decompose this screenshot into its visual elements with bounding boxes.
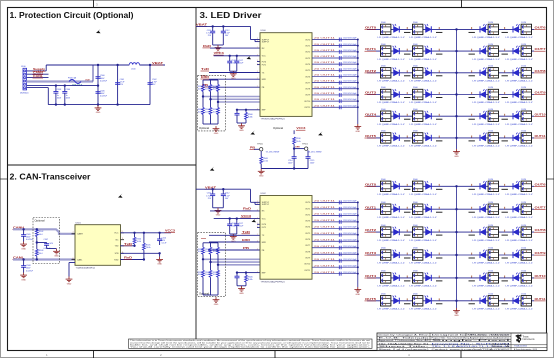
svg-text:OUT10: OUT10: [304, 264, 310, 266]
svg-text:1: 1: [257, 40, 258, 42]
svg-text:0.1uF: 0.1uF: [238, 63, 244, 65]
ground output bus: [354, 124, 361, 129]
svg-text:OUT1: OUT1: [305, 208, 310, 210]
test point TP500: [260, 148, 263, 151]
svg-text:10.0k: 10.0k: [296, 141, 301, 143]
wire LED row net OUT1: [367, 208, 457, 210]
svg-text:OUT4: OUT4: [365, 112, 377, 116]
wire LED common bus: [456, 186, 458, 308]
annotation arrow: [250, 130, 255, 134]
wire output row 1 with capacitor: [312, 207, 359, 211]
svg-text:RxD: RxD: [124, 257, 132, 260]
svg-text:OUT10: OUT10: [535, 112, 547, 116]
wire output row 9 with capacitor: [312, 93, 359, 97]
LED D500: [378, 22, 411, 39]
wire LED row net OUT4: [367, 115, 457, 117]
resistor R525 pulldown: [217, 265, 219, 271]
wire VBAT: [196, 25, 251, 27]
svg-text:OUT1: OUT1: [365, 47, 377, 51]
wire bottom rail: [48, 104, 150, 106]
svg-text:10.0k: 10.0k: [205, 88, 209, 90]
svg-text:TxD: TxD: [201, 68, 209, 71]
wire STB to gnd: [159, 253, 161, 256]
svg-text:Project Title: Two-Channel Ma: Project Title: Two-Channel Many Angled O…: [432, 337, 511, 340]
capacitor C506: [96, 92, 101, 94]
svg-text:F500 3A: F500 3A: [68, 76, 76, 79]
wire LED row net OUT4: [367, 277, 457, 279]
fuse F500: [69, 80, 81, 84]
svg-text:TxD: TxD: [242, 231, 250, 234]
LED D509: [410, 66, 443, 83]
wire LED row net OUT1: [367, 50, 457, 52]
svg-text:1: 1: [257, 203, 258, 205]
LED D532: [378, 225, 411, 242]
wire ADDR1 (highlighted): [211, 261, 261, 263]
svg-text:1: 1: [257, 63, 258, 65]
svg-text:10.0k: 10.0k: [213, 251, 217, 253]
wire VCC3: [214, 55, 260, 57]
svg-text:VBAT: VBAT: [205, 185, 217, 189]
wire SUPPLY pin: [251, 201, 261, 203]
wire ADDR0 (highlighted): [203, 96, 260, 98]
wire LED row net OUT2: [367, 72, 457, 74]
svg-text:TID: TIDA-050030 Rev: E1: TID: TIDA-050030 Rev: E1: [379, 342, 431, 345]
svg-text:RXD: RXD: [114, 259, 119, 261]
svg-text:GND: GND: [259, 176, 264, 178]
svg-text:Rev: 2 3 4: Rev: 2 3 4: [492, 343, 512, 345]
capacitor C503: [53, 92, 58, 94]
svg-text:CANH: CANH: [77, 233, 83, 236]
LED D542: [469, 271, 501, 288]
wire output gnd bus: [357, 202, 359, 287]
ground under C505: [20, 242, 27, 247]
wire PB to TP500: [254, 148, 259, 150]
svg-text:OUT11: OUT11: [304, 107, 310, 109]
svg-text:OUT5: OUT5: [305, 233, 310, 235]
junction: [293, 167, 295, 169]
LED D525: [410, 179, 443, 196]
svg-text:OUT3: OUT3: [365, 91, 377, 95]
svg-text:OUT6: OUT6: [535, 26, 547, 30]
svg-text:VCC3: VCC3: [214, 52, 225, 55]
svg-text:GND: GND: [216, 215, 221, 217]
wire VBAT rail right: [140, 64, 166, 66]
optional termination box: [33, 218, 60, 264]
svg-text:FLT1: FLT1: [262, 227, 266, 229]
wire riser fuse output: [92, 65, 94, 82]
wire pin4 supply (highlighted): [27, 80, 93, 82]
wire PB: [208, 249, 260, 251]
svg-text:OUT1: OUT1: [365, 205, 377, 209]
svg-text:E-O-B: Tolerado: E-O-B: Tolerado: [379, 338, 432, 340]
LED D510: [469, 66, 501, 83]
svg-text:1: 1: [257, 241, 258, 243]
svg-text:VCC3: VCC3: [165, 230, 176, 233]
wire output row 0 with capacitor: [312, 200, 359, 204]
disclaimer text box: [129, 339, 373, 348]
svg-text:0.1uF: 0.1uF: [162, 243, 168, 245]
svg-text:VCC: VCC: [114, 233, 119, 235]
junction LED bus: [455, 28, 457, 30]
svg-text:OUT8: OUT8: [305, 251, 310, 253]
LED D536: [378, 248, 411, 265]
capacitor C508: [21, 266, 26, 268]
svg-text:OUT11: OUT11: [535, 134, 547, 138]
svg-text:TCAN1044AVDRQ1: TCAN1044AVDRQ1: [76, 267, 96, 270]
annotation arrow: [96, 29, 101, 33]
svg-text:OUT9: OUT9: [305, 95, 310, 97]
svg-text:GND: GND: [214, 304, 219, 306]
svg-text:VCC: VCC: [262, 218, 267, 220]
wire to C517: [236, 219, 238, 224]
wire output row 8 with capacitor: [312, 87, 359, 91]
svg-text:A Texas Instruments - 2019: A Texas Instruments - 2019: [514, 348, 537, 351]
wire to C508: [23, 260, 25, 266]
svg-text:10.0k: 10.0k: [213, 88, 217, 90]
svg-text:0.047uF: 0.047uF: [100, 96, 108, 98]
svg-text:1: 1: [257, 226, 258, 228]
wire output row 3 with capacitor: [312, 56, 359, 60]
svg-text:RX_DIG_TMSW: RX_DIG_TMSW: [308, 152, 322, 154]
svg-text:C503: C503: [57, 89, 62, 91]
svg-text:Approved: TI Information Siz: Approved: TI Information Size: A3: [379, 339, 430, 342]
svg-text:VCC: VCC: [262, 56, 267, 58]
ground VBAT caps: [215, 45, 222, 50]
wire LED row net OUT5: [367, 300, 457, 302]
LED D544: [378, 294, 411, 311]
wire to C512: [222, 189, 224, 194]
LED D521: [410, 131, 443, 148]
ground REF: [238, 123, 245, 128]
capacitor C504: [62, 92, 67, 94]
svg-text:100V: 100V: [310, 163, 315, 165]
svg-text:TxD: TxD: [124, 243, 132, 246]
LED D503: [502, 22, 534, 39]
annotation arrow: [318, 131, 323, 135]
svg-text:OUT8: OUT8: [535, 228, 547, 232]
svg-text:VBAT: VBAT: [196, 23, 208, 27]
svg-text:GND: GND: [21, 248, 26, 250]
wire output row 2 with capacitor: [312, 213, 359, 217]
resistor R525 pulldown: [217, 102, 219, 108]
optional address-select box: [198, 75, 226, 131]
LED D524: [378, 179, 411, 196]
svg-text:282834-6: 282834-6: [20, 93, 29, 95]
junction split node: [36, 241, 38, 243]
wire RxD: [210, 47, 260, 49]
svg-text:60.4: 60.4: [39, 253, 43, 255]
LED D530: [469, 202, 501, 219]
wire to C512: [222, 26, 224, 31]
svg-text:RxD: RxD: [243, 208, 251, 211]
svg-text:SUPPLY: SUPPLY: [262, 41, 270, 43]
svg-text:OUT4: OUT4: [305, 64, 310, 66]
svg-text:GND: GND: [157, 264, 162, 266]
LED D523: [502, 131, 534, 148]
svg-text:OUT5: OUT5: [365, 297, 377, 301]
wire pin3 CANL stub: [27, 77, 49, 79]
svg-text:TP501: TP501: [302, 143, 309, 145]
svg-text:GND: GND: [239, 293, 244, 295]
ground split termination: [53, 249, 60, 254]
LED D547: [502, 294, 534, 311]
svg-text:GND: GND: [355, 294, 360, 296]
resistor R522 pullup: [217, 80, 219, 85]
wire ERR: [209, 241, 260, 243]
LED D507: [502, 44, 534, 61]
capacitor C513: [236, 273, 238, 277]
LED D546: [469, 294, 501, 311]
resistor R510: [293, 137, 296, 144]
junction LED bus: [455, 50, 457, 52]
svg-text:STB: STB: [115, 253, 120, 255]
svg-text:ERR: ERR: [262, 242, 267, 244]
wire cap gnd tie: [213, 44, 224, 46]
wire to C516: [229, 219, 231, 224]
wire to C503: [55, 86, 57, 92]
wire output row 8 with capacitor: [312, 252, 359, 256]
LED D538: [469, 248, 501, 265]
wire: [36, 228, 38, 230]
LED D518: [469, 109, 501, 126]
LED D520: [378, 131, 411, 148]
ground U501: [66, 277, 73, 282]
svg-text:TIDA-010052: TIDA-010052: [514, 345, 528, 348]
svg-text:Size: A: Size: A: [492, 345, 512, 348]
svg-text:1. Protection Circuit (Optiona: 1. Protection Circuit (Optional): [10, 10, 134, 20]
svg-text:SUPPLY: SUPPLY: [262, 204, 270, 206]
svg-text:OUT3: OUT3: [365, 251, 377, 255]
resistor R523 pulldown: [202, 259, 204, 270]
svg-text:1: 1: [257, 234, 258, 236]
svg-text:Single-Pixel: Single-Pixel: [432, 340, 514, 342]
LED D527: [502, 179, 534, 196]
wire ADDR2 (highlighted): [218, 264, 260, 266]
wire LED row net OUT3: [367, 254, 457, 256]
svg-text:10.0k: 10.0k: [205, 111, 209, 113]
wire to TP501: [294, 148, 304, 150]
resistor R520 pullup: [202, 80, 204, 85]
svg-text:10.0k: 10.0k: [205, 274, 209, 276]
ground VBAT caps: [215, 208, 222, 213]
CAN transceiver U501: [75, 225, 121, 266]
wire output row 10 with capacitor: [312, 265, 359, 269]
svg-text:1: 1: [257, 249, 258, 251]
wire box bottom rail: [203, 123, 218, 125]
optional address-select box: [198, 233, 226, 297]
svg-text:U502: U502: [261, 193, 267, 195]
ground REF: [238, 286, 245, 291]
wire C502 column: [149, 65, 151, 105]
junction LED bus: [455, 185, 457, 187]
svg-text:OUT8: OUT8: [535, 69, 547, 73]
svg-text:ERR: ERR: [201, 76, 209, 79]
wire TP501 to C515: [307, 150, 309, 156]
LED D501: [410, 22, 443, 39]
svg-text:U501: U501: [76, 222, 82, 224]
svg-text:GND: GND: [214, 133, 219, 135]
svg-text:10.0k: 10.0k: [198, 111, 202, 113]
svg-text:OUT6: OUT6: [535, 182, 547, 186]
wire stub FLT0: [257, 223, 260, 225]
resistor R524 pulldown: [210, 262, 212, 270]
svg-text:10.0k: 10.0k: [198, 88, 202, 90]
LED D545: [410, 294, 443, 311]
svg-text:1: 1: [257, 217, 258, 219]
wire ERR: [209, 78, 260, 80]
annotation arrow: [252, 218, 257, 222]
LED D519: [502, 109, 534, 126]
svg-text:VBAT: VBAT: [85, 78, 91, 81]
wire TxD: [209, 234, 260, 236]
capacitor C507: [44, 244, 49, 246]
wire TxD: [209, 72, 260, 74]
LED D511: [502, 66, 534, 83]
wire stub FLT1: [257, 64, 260, 66]
svg-text:8.06k: 8.06k: [248, 116, 253, 118]
svg-text:OUT3: OUT3: [305, 58, 310, 60]
svg-text:Sheet: 2 of 4 (schematic): Sheet: 2 of 4 (schematic): [379, 348, 430, 351]
svg-text:OUT2: OUT2: [365, 69, 377, 73]
svg-text:C504: C504: [66, 89, 71, 91]
wire pin1 Supply: [27, 70, 47, 72]
wire to C517: [236, 56, 238, 61]
wire output gnd bus: [357, 40, 359, 125]
LED D512: [378, 87, 411, 104]
wire output row 4 with capacitor: [312, 226, 359, 230]
wire output row 0 with capacitor: [312, 38, 359, 42]
svg-text:OUT7: OUT7: [535, 47, 547, 51]
wire riser to VBAT rail: [45, 65, 47, 71]
wire RxD: [210, 210, 260, 212]
svg-text:VBAT: VBAT: [152, 61, 164, 65]
LED D517: [410, 109, 443, 126]
svg-text:OUT0: OUT0: [305, 202, 310, 204]
wire REF: [246, 272, 260, 274]
LED D537: [410, 248, 443, 265]
svg-text:Texas: Texas: [523, 337, 530, 339]
wire output row 3 with capacitor: [312, 220, 359, 224]
svg-text:OUT1: OUT1: [305, 45, 310, 47]
wire output row 6 with capacitor: [312, 74, 359, 78]
svg-text:OUT5: OUT5: [305, 70, 310, 72]
svg-text:CANL: CANL: [77, 258, 83, 261]
svg-text:OUT2: OUT2: [305, 214, 310, 216]
svg-text:8.06k: 8.06k: [248, 279, 253, 281]
capacitor C510: [159, 233, 161, 239]
svg-text:10.0k: 10.0k: [146, 247, 151, 249]
svg-text:OUT4: OUT4: [305, 227, 310, 229]
ground VCC3 caps: [230, 234, 237, 239]
LED D508: [378, 66, 411, 83]
junction LED bus: [455, 300, 457, 302]
junction LED bus: [455, 208, 457, 210]
resistor R504: [134, 233, 136, 237]
ground address box: [213, 126, 220, 131]
svg-text:100V: 100V: [66, 98, 71, 100]
svg-text:C507: C507: [44, 239, 49, 241]
LED D531: [502, 202, 534, 219]
svg-text:GND: GND: [21, 279, 26, 281]
wire riser to SUPPLY: [250, 189, 252, 202]
svg-text:ERR: ERR: [262, 79, 267, 81]
title block: [377, 333, 547, 351]
wire riser pin6 to bottom rail: [47, 88, 49, 105]
svg-text:OUT3: OUT3: [305, 221, 310, 223]
resistor R506 REF: [245, 110, 247, 113]
wire output row 7 with capacitor: [312, 81, 359, 85]
svg-text:CANL: CANL: [33, 75, 44, 78]
svg-text:10.0k: 10.0k: [198, 274, 202, 276]
LED D515: [502, 87, 534, 104]
svg-text:1: 1: [257, 271, 258, 273]
resistor R503: [35, 249, 38, 256]
wire to CANL: [36, 256, 38, 259]
svg-text:OUT10: OUT10: [535, 274, 547, 278]
wire ADDR0 (highlighted): [203, 258, 260, 260]
wire cap gnd tie: [230, 70, 237, 72]
svg-text:0.1uF: 0.1uF: [238, 225, 244, 227]
svg-text:Contact: www.ti.com/tool/TIDA: Contact: www.ti.com/tool/TIDA-010052: [432, 348, 512, 351]
svg-text:1: 1: [257, 47, 258, 49]
svg-text:2. CAN-Transceiver: 2. CAN-Transceiver: [10, 172, 92, 182]
ground LED bus: [453, 308, 460, 313]
junction: [97, 84, 99, 86]
svg-text:OUT5: OUT5: [365, 134, 377, 138]
section dividers: [195, 8, 197, 339]
test point TP501: [305, 147, 308, 150]
LED D516: [378, 109, 411, 126]
wire CANL (highlighted): [13, 258, 75, 260]
wire output row 1 with capacitor: [312, 44, 359, 48]
svg-text:TX_DIG_TMSW: TX_DIG_TMSW: [266, 152, 280, 154]
svg-text:OUT0: OUT0: [365, 26, 377, 30]
wire cap gnd tie: [213, 207, 224, 209]
LED D504: [378, 44, 411, 61]
svg-text:60.4: 60.4: [39, 234, 43, 236]
svg-text:Sheet Title:: Sheet Title:: [379, 345, 431, 348]
wire ref gnd tie: [237, 122, 246, 124]
LED D529: [410, 202, 443, 219]
svg-text:OUT10: OUT10: [304, 101, 310, 103]
svg-text:0.047uF: 0.047uF: [26, 239, 34, 241]
wire stub FLT0: [257, 61, 260, 63]
wire gnd rail: [261, 168, 308, 170]
svg-text:10.0k: 10.0k: [205, 251, 209, 253]
ground output bus: [354, 287, 361, 292]
junction CANL: [22, 258, 24, 260]
svg-text:FLT0: FLT0: [262, 61, 266, 63]
wire to C516: [229, 56, 231, 61]
svg-text:1: 1: [257, 78, 258, 80]
wire to C514: [293, 149, 295, 157]
wire LED row net OUT0: [367, 185, 457, 187]
wire VBAT rail: [46, 64, 129, 66]
wire mid node: [36, 237, 38, 250]
capacitor C513: [236, 110, 238, 114]
svg-text:GND: GND: [454, 315, 459, 317]
wire ref gnd tie: [237, 285, 246, 287]
capacitor C514: [292, 157, 297, 159]
wire box top rail: [203, 79, 218, 81]
svg-text:Optional: Optional: [199, 126, 209, 130]
LED D526: [469, 179, 501, 196]
ground STB/C510: [156, 257, 163, 262]
LED D534: [469, 225, 501, 242]
wire LED row net OUT3: [367, 94, 457, 96]
wire to C507: [37, 242, 47, 244]
LED D543: [502, 271, 534, 288]
